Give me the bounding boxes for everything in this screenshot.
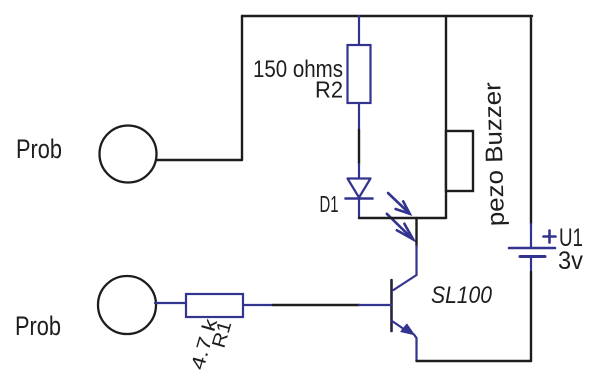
wire: left vertical drop to probe 1 [241,16,243,160]
svg-text:D1: D1 [320,191,339,217]
resistor R1 [186,294,243,317]
wire: bottom bus [417,360,532,362]
wire: probe 1 to left vertical [156,159,242,161]
svg-text:Prob: Prob [15,311,61,341]
svg-text:3v: 3v [558,247,583,275]
battery U1 positive plate [509,247,555,250]
wire: node wire D1/buzzer/collector horizontal [359,217,446,219]
wire: right vertical lower (black) to bottom bus [530,272,532,361]
wire: R1 to base (black part) [273,304,359,306]
transistor Q1 emitter arrowhead [401,324,414,334]
wire: right vertical (black upper part) [530,16,532,224]
wire: R2 to D1 (blue part) [358,103,360,130]
wire: top bus to resistor R2 [358,16,360,45]
probe P1 circle (top) [100,126,157,183]
battery plus sign [544,231,556,243]
wire: D1 cathode stub down [358,199,360,218]
wire: top bus from left corner to right corner [242,15,532,17]
transistor Q1 emitter diagonal [392,321,406,331]
wire: R2 to D1 (black part) [358,130,360,164]
LED arrow 2 [387,214,413,240]
transistor Q1 collector diagonal [394,275,417,290]
transistor Q1 base bar [390,280,393,331]
svg-text:Prob: Prob [16,134,62,164]
wire: collector drop (blue part) [415,246,417,275]
wire: emitter down to bottom bus (blue) [414,335,417,362]
wire: R1 to base (blue part) [243,304,273,306]
LED arrow 1 [388,193,410,214]
svg-text:R2: R2 [315,77,343,103]
piezo buzzer body [446,131,473,191]
svg-text:pezo Buzzer: pezo Buzzer [479,82,510,227]
LED D1 cathode bar [346,197,373,200]
probe P2 circle (bottom) [98,276,156,334]
battery U1 negative plate [520,255,545,258]
wire: into D1 anode [358,164,360,179]
resistor R2 [348,45,371,103]
wire: battery negative stub (blue) [530,257,532,272]
wire: collector drop (black part) [415,218,417,246]
wire: probe 2 to R1 (blue) [155,302,186,304]
wire: buzzer stem vertical [445,16,447,218]
LED D1 triangle (anode) [348,179,371,198]
wire: right vertical into battery (blue) [530,224,532,247]
wire: into base (blue) [359,304,391,306]
svg-text:SL100: SL100 [431,282,493,309]
